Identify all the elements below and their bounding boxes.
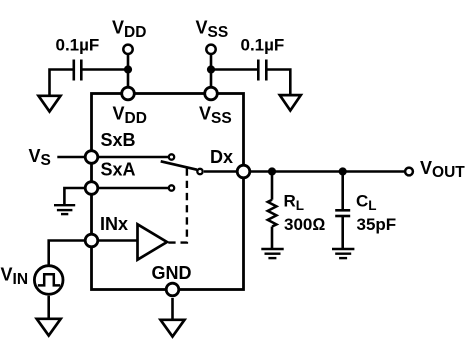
pin VDD bbox=[122, 87, 135, 100]
pin Dx bbox=[237, 165, 250, 178]
svg-text:Dx: Dx bbox=[210, 147, 233, 167]
ground (GND pin) bbox=[161, 320, 185, 337]
wire Dx junction to CL bbox=[341, 172, 344, 210]
svg-text:0.1µF: 0.1µF bbox=[56, 36, 100, 55]
switch throw contact SxB bbox=[169, 154, 174, 159]
terminal VOUT bbox=[405, 168, 413, 176]
wire CL to ground bbox=[341, 216, 344, 248]
resistor RL 300ohm bbox=[268, 200, 277, 227]
junction VSS / C2 bbox=[207, 65, 215, 73]
switch throw contact SxA bbox=[169, 185, 174, 190]
wire Dx pin to VOUT bbox=[247, 170, 405, 173]
wire VIN to INx pin bbox=[49, 241, 88, 265]
wire C2 to VSS junction bbox=[211, 68, 258, 71]
capacitor C1 0.1uF bbox=[74, 60, 82, 81]
wire GND pin to ground bbox=[171, 298, 174, 320]
terminal VDD bbox=[123, 45, 132, 54]
capacitor CL 35pF bbox=[335, 210, 350, 216]
svg-text:GND: GND bbox=[152, 263, 192, 283]
junction Dx / CL bbox=[339, 167, 347, 175]
switch blade bbox=[161, 161, 197, 169]
wire SxA pin to switch throw contact bbox=[95, 187, 168, 190]
dashed control line bbox=[168, 169, 187, 243]
source VIN (pulse generator) bbox=[34, 266, 63, 295]
switch pole contact bbox=[197, 169, 202, 174]
wire SxA pin to ground bbox=[64, 188, 88, 204]
ground (C2) bbox=[280, 95, 301, 110]
svg-text:300Ω: 300Ω bbox=[284, 215, 325, 234]
ground (CL) bbox=[332, 249, 354, 258]
terminal VSS bbox=[206, 45, 215, 54]
svg-text:SxB: SxB bbox=[101, 130, 136, 150]
pin SxB bbox=[85, 151, 98, 164]
wire SxB pin to switch throw contact bbox=[95, 156, 168, 159]
ground (SxA) bbox=[54, 205, 75, 214]
pin VSS bbox=[205, 87, 218, 100]
ground (VIN) bbox=[37, 319, 61, 336]
junction VDD / C1 bbox=[124, 65, 132, 73]
svg-text:35pF: 35pF bbox=[357, 215, 397, 234]
wire VIN to ground bbox=[47, 296, 50, 319]
ground (RL) bbox=[261, 249, 283, 258]
wire pole contact to Dx pin bbox=[204, 170, 240, 173]
wire C1 to VDD junction bbox=[81, 68, 128, 71]
wire C1 to ground bbox=[50, 70, 74, 96]
IC box U1 bbox=[92, 94, 244, 290]
junction Dx / RL bbox=[268, 167, 276, 175]
capacitor C2 0.1uF bbox=[258, 60, 266, 81]
wire C2 to ground bbox=[266, 70, 290, 95]
wire RL to ground bbox=[271, 227, 274, 249]
wire VDD terminal to VDD pin bbox=[127, 54, 130, 87]
pin GND bbox=[166, 283, 179, 296]
ground (C1) bbox=[39, 96, 61, 112]
buffer driver A1 bbox=[138, 224, 168, 259]
svg-text:SxA: SxA bbox=[101, 160, 136, 180]
wire Dx junction to RL bbox=[271, 172, 274, 200]
pin INx bbox=[85, 234, 98, 247]
wire INx pin to buffer bbox=[95, 239, 138, 242]
pin SxA bbox=[85, 182, 98, 195]
svg-text:INx: INx bbox=[100, 214, 128, 234]
wire VS to SxB pin bbox=[57, 156, 88, 159]
wire VSS terminal to VSS pin bbox=[210, 54, 213, 87]
svg-text:0.1µF: 0.1µF bbox=[241, 36, 285, 55]
